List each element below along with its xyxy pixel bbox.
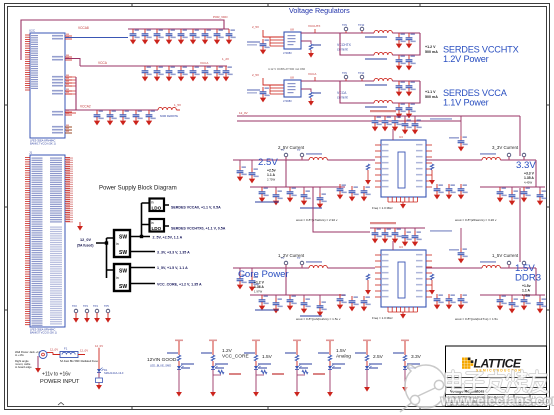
svg-text:12_0V: 12_0V [239,111,248,115]
svg-text:POR_VDD: POR_VDD [213,15,228,19]
svg-text:3.3V: 3.3V [516,160,536,171]
svg-text:12_0V: 12_0V [95,344,103,348]
svg-text:(5A fused): (5A fused) [77,244,93,248]
svg-text:POWER INPUT: POWER INPUT [40,379,80,385]
svg-text:LT3083: LT3083 [283,51,292,55]
svg-text:Power Supply Block Diagram: Power Supply Block Diagram [99,186,177,192]
svg-text:F1: F1 [64,347,68,351]
svg-text:2_5V, +2.5V, 1.1 A: 2_5V, +2.5V, 1.1 A [153,236,183,240]
svg-text:www.elecfans.com: www.elecfans.com [440,393,554,408]
svg-text:4.45W: 4.45W [524,181,532,185]
svg-text:Analog: Analog [336,354,351,360]
svg-text:U2C: U2C [29,29,36,33]
svg-text:1.2V Power: 1.2V Power [443,54,489,64]
svg-text:12_0V: 12_0V [80,349,88,353]
svg-text:5A Fast Blo 5MF Radialed Fuse: 5A Fast Blo 5MF Radialed Fuse [60,359,98,363]
svg-text:2.5V: 2.5V [258,157,278,168]
svg-text:TP4: TP4 [93,304,98,308]
svg-text:1.65W: 1.65W [522,293,530,297]
svg-text:12_0V: 12_0V [50,348,58,352]
svg-text:2_5V: 2_5V [252,73,259,77]
svg-text:VCCA: VCCA [200,61,208,65]
svg-text:Core Power: Core Power [238,269,289,280]
svg-text:12_0V: 12_0V [80,238,91,242]
svg-text:TP5: TP5 [104,304,109,308]
svg-text:VCCA: VCCA [337,91,347,95]
svg-text:U8: U8 [290,28,294,32]
svg-text:3_3V, +3.3 V, 1.35 A: 3_3V, +3.3 V, 1.35 A [157,251,190,255]
svg-text:2.5V: 2.5V [373,354,384,360]
svg-text:to +16v: to +16v [15,353,25,357]
svg-text:LED_BLUE_SMD: LED_BLUE_SMD [150,364,171,368]
svg-text:SERDES VCCHTX0, +1.1 V, 0.5A: SERDES VCCHTX0, +1.1 V, 0.5A [171,227,226,231]
svg-text:Freq = 1.0 MHz: Freq = 1.0 MHz [372,316,393,320]
svg-text:+11v to +16v: +11v to +16v [42,372,71,378]
svg-text:1.35 A: 1.35 A [524,176,534,180]
svg-text:1.5V: 1.5V [262,354,273,360]
svg-text:VCCHTX: VCCHTX [308,24,320,28]
svg-text:+1.5v: +1.5v [522,284,531,288]
svg-text:TP3: TP3 [83,304,88,308]
svg-text:1.97W: 1.97W [254,290,262,294]
svg-text:wout = 0.8*(ps4/ps1Tvs) = 1.5s: wout = 0.8*(ps4/ps1Tvs) = 1.5s [455,317,498,321]
svg-text:TP9: TP9 [342,71,347,75]
svg-text:1.1 A: 1.1 A [522,289,531,293]
svg-text:4.12 V OCBS AT 500 mA OMI: 4.12 V OCBS AT 500 mA OMI [268,67,305,71]
svg-text:VCCA2: VCCA2 [80,105,91,109]
svg-text:TP2: TP2 [72,304,77,308]
svg-text:SERDES VCCA0, +1.1 V, 0.5A: SERDES VCCA0, +1.1 V, 0.5A [171,206,221,210]
svg-text:U8: U8 [290,76,294,80]
svg-text:600R FERRITE: 600R FERRITE [160,114,178,118]
svg-text:wout = 0.8*(ps3/ps2srs) = 1.5s: wout = 0.8*(ps3/ps2srs) = 1.5s v [296,317,341,321]
svg-text:BANK17 VCCA (SK 1): BANK17 VCCA (SK 1) [30,142,56,146]
svg-text:Freq = 1.0 MHz: Freq = 1.0 MHz [372,206,393,210]
svg-text:1_2V Current: 1_2V Current [278,253,305,258]
svg-text:2.75W: 2.75W [267,178,275,182]
svg-text:+1.2 V: +1.2 V [425,45,436,49]
svg-text:U3: U3 [399,135,403,139]
svg-text:U3: U3 [399,245,403,249]
svg-text:500 mA: 500 mA [425,95,438,99]
svg-text:2_5V: 2_5V [252,25,259,29]
svg-text:TP10: TP10 [358,71,365,75]
svg-text:TP10: TP10 [358,23,365,27]
svg-text:SERDES VCCA: SERDES VCCA [443,88,508,98]
svg-text:1.36 A: 1.36 A [254,285,264,289]
svg-text:1_2V: 1_2V [222,57,229,61]
svg-text:3_3V Current: 3_3V Current [492,145,519,150]
svg-text:500 mA: 500 mA [425,50,438,54]
svg-text:VCCA: VCCA [98,61,108,65]
svg-text:LT3083: LT3083 [283,99,292,103]
svg-text:1.1 A: 1.1 A [267,173,276,177]
svg-text:current: current [337,48,348,52]
svg-text:12VIN GOOD: 12VIN GOOD [147,357,177,363]
svg-text:SMAJ14CA-13-F: SMAJ14CA-13-F [104,371,124,375]
svg-text:1_5V: 1_5V [174,103,181,107]
svg-text:3.3V: 3.3V [411,354,422,360]
svg-text:Voltage Regulators: Voltage Regulators [289,6,350,15]
svg-text:J1: J1 [29,151,33,155]
svg-text:SERDES VCCHTX: SERDES VCCHTX [443,45,519,55]
svg-text:1.2V: 1.2V [222,348,233,354]
svg-text:VCC_CORE, +1.2 V, 1.35 A: VCC_CORE, +1.2 V, 1.35 A [157,283,202,287]
svg-text:1.5V: 1.5V [336,348,347,354]
svg-text:BANK37 VCCIO (SK 1): BANK37 VCCIO (SK 1) [30,331,57,335]
svg-text:1_5V, +1.5 V, 1.1 A: 1_5V, +1.5 V, 1.1 A [157,266,188,270]
svg-text:+1.2 V: +1.2 V [254,281,265,285]
svg-text:1.1V Power: 1.1V Power [443,98,489,108]
svg-text:DDR3: DDR3 [515,273,541,284]
svg-text:+2.5v: +2.5v [267,169,276,173]
svg-text:1_5V Current: 1_5V Current [492,253,519,258]
svg-text:to board edge: to board edge [15,365,32,369]
svg-text:VCCA: VCCA [308,72,316,76]
svg-text:current: current [337,96,348,100]
svg-text:+3.3 V: +3.3 V [524,172,535,176]
svg-text:2_5V Current: 2_5V Current [278,145,305,150]
svg-text:VCC_CORE: VCC_CORE [222,354,249,360]
svg-text:wout = 0.8*(a7/a0srs) = 2.92 v: wout = 0.8*(a7/a0srs) = 2.92 v [296,218,338,222]
svg-text:VCCA8: VCCA8 [78,26,89,30]
svg-text:VCCHTX: VCCHTX [337,43,352,47]
svg-text:wout = 0.8*(a5/as1rs) = 3.20 v: wout = 0.8*(a5/as1rs) = 3.20 v [455,218,497,222]
svg-text:TP9: TP9 [342,23,347,27]
svg-text:+1.1 V: +1.1 V [425,90,436,94]
